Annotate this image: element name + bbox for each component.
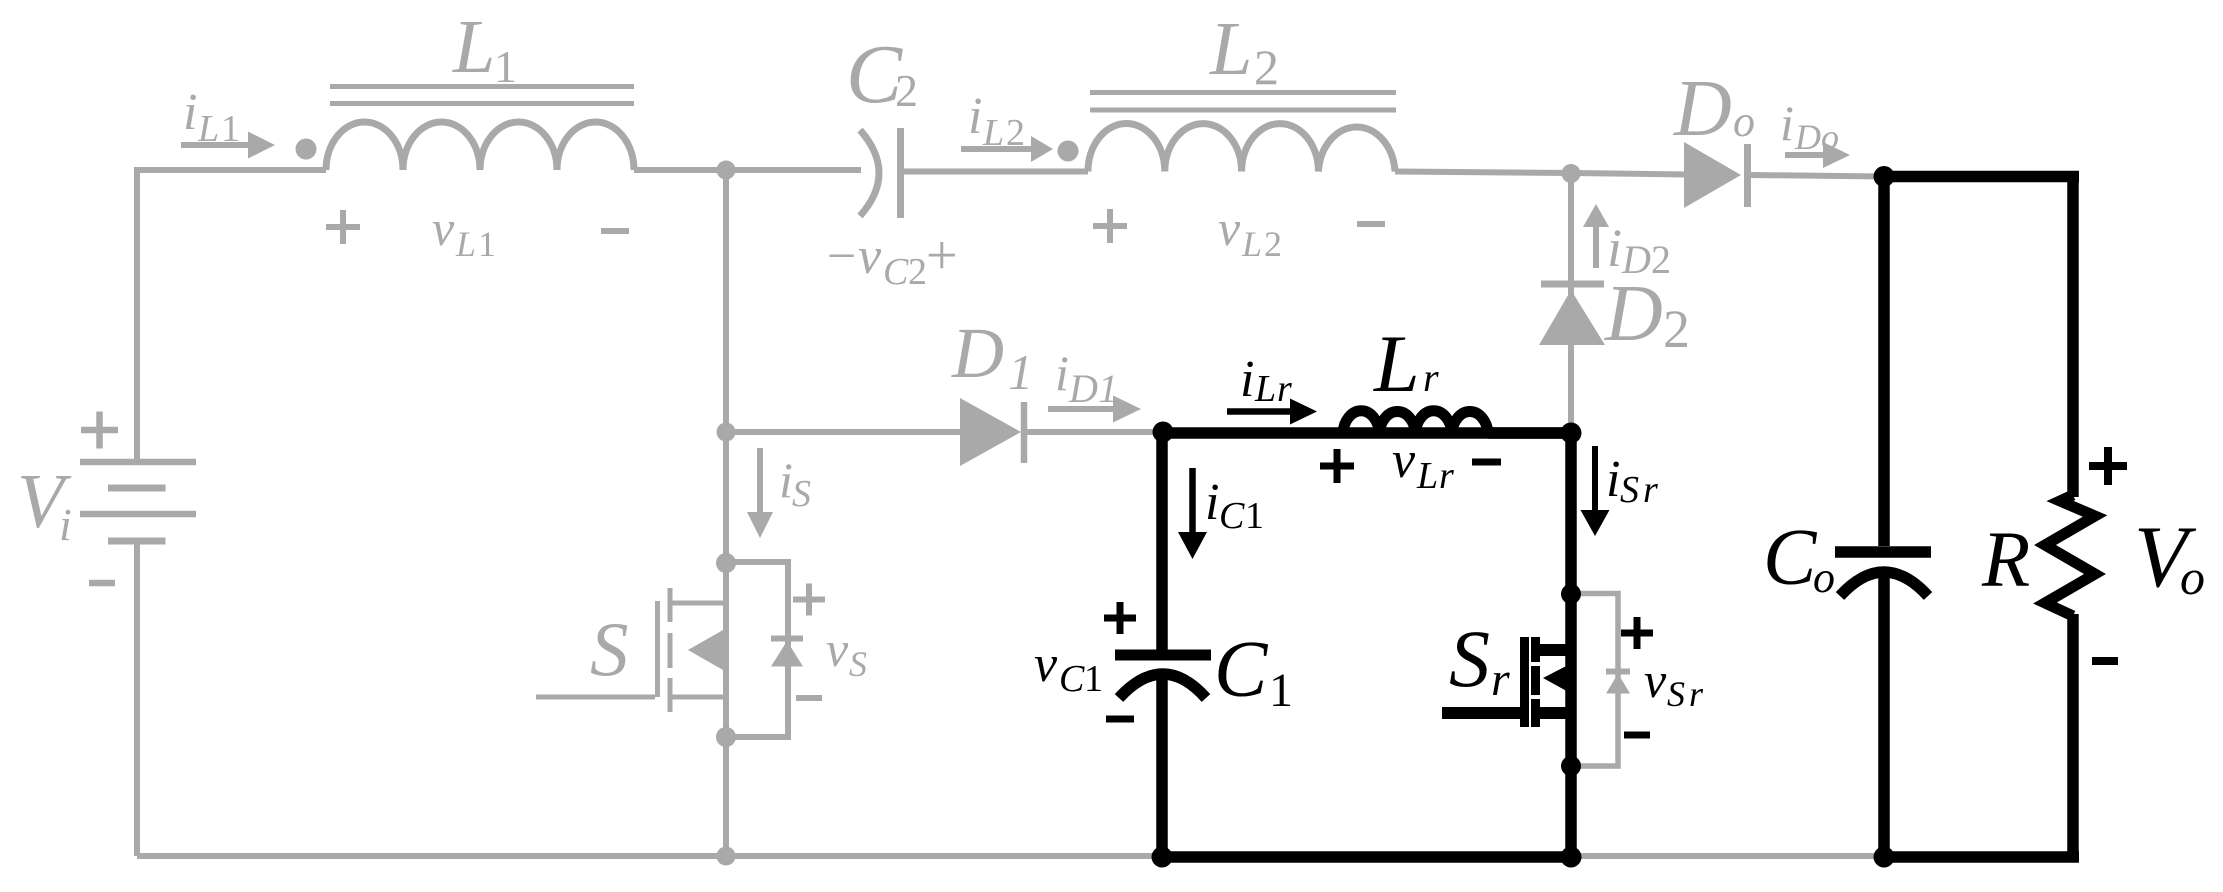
svg-text:2: 2 bbox=[1254, 39, 1279, 95]
svg-text:L: L bbox=[982, 112, 1004, 154]
output minus sign (Vo) bbox=[2092, 657, 2118, 665]
capacitor Co curved plate bbox=[1840, 572, 1928, 596]
wire Do to output node bbox=[1751, 175, 1884, 177]
node bottom left dot bbox=[1152, 847, 1173, 868]
output cell top wire bbox=[1884, 171, 2079, 183]
svg-text:D: D bbox=[1794, 117, 1821, 157]
svg-text:L: L bbox=[1373, 318, 1420, 409]
mosfet Sr gate lead bbox=[1442, 707, 1520, 719]
svg-text:v: v bbox=[1034, 636, 1058, 693]
wire resonant cell top left (node A to Lr) bbox=[1162, 427, 1571, 439]
i_Sr arrowhead bbox=[1581, 510, 1610, 536]
output cell Co vertical lower bbox=[1878, 575, 1890, 857]
svg-text:L: L bbox=[1416, 455, 1438, 497]
svg-text:S: S bbox=[590, 606, 629, 692]
capacitor C1 plus sign bbox=[1104, 602, 1136, 634]
battery Vi plates bbox=[80, 459, 196, 466]
svg-text:+: + bbox=[926, 225, 958, 287]
i_C1 arrowhead bbox=[1178, 532, 1207, 559]
svg-text:i: i bbox=[968, 88, 982, 145]
mosfet Sr body arrow bbox=[1543, 663, 1572, 694]
diode Do triangle bbox=[1684, 142, 1741, 208]
i_L2 arrowhead bbox=[1031, 136, 1053, 162]
svg-text:L: L bbox=[455, 224, 476, 264]
i_Sr arrow shaft bbox=[1592, 446, 1598, 510]
svg-text:L: L bbox=[452, 5, 495, 89]
svg-text:1: 1 bbox=[1084, 658, 1103, 700]
diode D1 triangle bbox=[960, 398, 1021, 466]
battery Vi minus sign bbox=[89, 580, 115, 587]
svg-text:v: v bbox=[432, 200, 455, 256]
i_C1 arrow shaft bbox=[1189, 468, 1196, 532]
wire vertical branch D2 bbox=[1568, 174, 1574, 430]
svg-text:S: S bbox=[792, 473, 811, 515]
wire Lr to node B bbox=[1488, 427, 1571, 439]
svg-text:1: 1 bbox=[1245, 495, 1264, 537]
mosfet S minus sign (v_S) bbox=[796, 695, 822, 701]
mosfet S drain lead bbox=[670, 601, 726, 606]
junction node L2/D2/Do bbox=[1562, 164, 1581, 183]
svg-text:D: D bbox=[1604, 270, 1663, 358]
wire vertical branch S (node top to bottom rail) bbox=[723, 170, 729, 856]
svg-text:1: 1 bbox=[1098, 366, 1118, 411]
battery Vi plus sign bbox=[81, 412, 118, 449]
output cell R vertical upper bbox=[2067, 176, 2079, 497]
node A dot bbox=[1153, 422, 1174, 443]
svg-text:L: L bbox=[197, 108, 219, 150]
v_L2 minus sign bbox=[1357, 221, 1385, 227]
svg-text:r: r bbox=[1423, 355, 1439, 400]
mosfet S body-diode triangle bbox=[771, 641, 803, 667]
svg-text:i: i bbox=[1240, 351, 1254, 408]
output cell bottom wire bbox=[1884, 851, 2079, 863]
svg-text:r: r bbox=[1491, 653, 1510, 706]
mosfet S body-diode branch wire bbox=[726, 562, 788, 737]
mosfet Sr drain lead bbox=[1537, 644, 1571, 656]
svg-text:D: D bbox=[1673, 65, 1732, 153]
svg-text:r: r bbox=[1439, 455, 1454, 497]
mosfet Sr body-diode cathode bar (gray) bbox=[1606, 669, 1630, 675]
svg-text:i: i bbox=[779, 452, 793, 508]
node output bottom dot bbox=[1874, 847, 1895, 868]
wire top rail from Vi to L1 bbox=[137, 170, 326, 459]
wire resonant cell right vertical bbox=[1565, 433, 1577, 857]
polarity dot L1 bbox=[296, 139, 317, 160]
wire top rail L2 to node D2 bbox=[1395, 172, 1571, 174]
svg-text:v: v bbox=[1644, 652, 1667, 708]
output cell Co vertical upper bbox=[1878, 171, 1890, 546]
mosfet S plus sign (v_S) bbox=[793, 584, 825, 616]
output plus sign (Vo) bbox=[2089, 447, 2127, 485]
svg-text:i: i bbox=[1205, 474, 1219, 531]
svg-text:1: 1 bbox=[221, 108, 240, 150]
capacitor C2 straight plate bbox=[897, 128, 904, 218]
node output top dot bbox=[1874, 166, 1895, 187]
inductor L1 core bars bbox=[330, 87, 634, 104]
v_Sr plus sign bbox=[1621, 617, 1653, 649]
i_D1 arrowhead bbox=[1113, 396, 1141, 423]
wire bottom rail bbox=[137, 853, 1884, 859]
capacitor C2 curved plate bbox=[860, 130, 879, 216]
svg-text:r: r bbox=[1689, 674, 1704, 714]
svg-text:L: L bbox=[1209, 7, 1252, 91]
i_S arrowhead bbox=[747, 512, 773, 538]
svg-text:o: o bbox=[1733, 97, 1755, 146]
v_L1 plus sign bbox=[326, 210, 360, 244]
wire middle rail node to D1 bbox=[726, 429, 961, 435]
diode D2 cathode bar bbox=[1541, 281, 1604, 288]
junction node bottom rail S bbox=[717, 847, 736, 866]
svg-text:D: D bbox=[951, 313, 1004, 393]
svg-text:i: i bbox=[59, 499, 72, 550]
svg-text:C: C bbox=[1059, 658, 1085, 700]
i_Do arrow shaft bbox=[1785, 152, 1823, 158]
svg-text:L: L bbox=[1254, 368, 1276, 410]
svg-text:1: 1 bbox=[1008, 344, 1033, 400]
svg-text:v: v bbox=[858, 228, 882, 285]
svg-text:1: 1 bbox=[478, 224, 496, 264]
mosfet S gate bar bbox=[655, 601, 660, 697]
i_Lr arrow shaft bbox=[1227, 408, 1290, 415]
svg-text:C: C bbox=[1214, 626, 1269, 714]
mosfet S channel segments bbox=[668, 588, 673, 712]
svg-text:R: R bbox=[1981, 517, 2030, 604]
svg-text:r: r bbox=[1277, 368, 1292, 410]
svg-text:S: S bbox=[1620, 469, 1639, 511]
svg-text:2: 2 bbox=[1264, 224, 1282, 264]
mosfet S body-diode cathode bar bbox=[771, 636, 803, 642]
svg-text:S: S bbox=[849, 644, 867, 684]
i_L2 arrow shaft bbox=[961, 146, 1031, 152]
mosfet Sr channel segments bbox=[1531, 637, 1540, 727]
diode Do cathode bar bbox=[1744, 144, 1751, 207]
svg-text:1: 1 bbox=[494, 41, 517, 92]
i_L1 arrowhead bbox=[248, 132, 275, 159]
output cell R vertical lower bbox=[2067, 614, 2079, 857]
diode D1 cathode bar bbox=[1021, 402, 1028, 463]
svg-text:o: o bbox=[1813, 553, 1835, 602]
node B dot bbox=[1561, 423, 1582, 444]
mosfet Sr body-diode triangle (gray) bbox=[1606, 674, 1630, 694]
polarity dot L2 bbox=[1058, 141, 1079, 162]
i_L1 arrow shaft bbox=[181, 142, 248, 148]
capacitor C1 minus sign bbox=[1106, 716, 1134, 723]
svg-text:L: L bbox=[1241, 224, 1262, 264]
v_Sr minus sign bbox=[1624, 732, 1650, 739]
inductor L1 winding bbox=[326, 122, 634, 170]
junction node S source bbox=[716, 727, 736, 747]
svg-text:o: o bbox=[1821, 117, 1839, 157]
svg-text:r: r bbox=[1643, 469, 1658, 511]
svg-text:2: 2 bbox=[908, 251, 927, 293]
i_Do arrowhead bbox=[1823, 142, 1850, 168]
svg-text:v: v bbox=[826, 621, 849, 677]
i_D2 arrowhead bbox=[1583, 204, 1609, 227]
wire top rail L1 to C2 bbox=[634, 167, 861, 173]
v_L1 minus sign bbox=[601, 228, 629, 234]
junction node middle rail bbox=[717, 423, 736, 442]
junction node S drain bbox=[716, 553, 736, 573]
inductor L2 core bars bbox=[1090, 93, 1396, 111]
wire top rail C2 to L2 bbox=[903, 169, 1088, 175]
i_D1 arrow shaft bbox=[1048, 406, 1113, 412]
svg-text:2: 2 bbox=[895, 65, 918, 116]
capacitor Co top plate bbox=[1835, 546, 1931, 558]
svg-text:i: i bbox=[1606, 451, 1620, 508]
svg-text:C: C bbox=[1763, 514, 1818, 602]
inductor Lr winding bbox=[1343, 411, 1488, 433]
svg-text:i: i bbox=[1055, 345, 1069, 401]
wire resonant cell left vertical lower bbox=[1156, 670, 1168, 857]
node Sr drain dot bbox=[1561, 584, 1581, 604]
svg-text:v: v bbox=[1392, 432, 1416, 489]
svg-text:S: S bbox=[1449, 613, 1490, 704]
mosfet S body arrow bbox=[688, 630, 723, 670]
svg-text:−: − bbox=[827, 228, 856, 285]
wire resonant cell bottom bbox=[1162, 851, 1571, 863]
mosfet Sr gate bar bbox=[1520, 637, 1529, 727]
i_D2 arrow shaft bbox=[1593, 226, 1599, 268]
svg-text:2: 2 bbox=[1663, 299, 1690, 359]
i_Lr arrowhead bbox=[1290, 399, 1317, 425]
svg-text:i: i bbox=[1780, 95, 1794, 151]
node Sr source dot bbox=[1561, 756, 1581, 776]
svg-text:2: 2 bbox=[1006, 112, 1025, 154]
svg-text:S: S bbox=[1667, 674, 1685, 714]
mosfet Sr source lead bbox=[1537, 707, 1571, 719]
svg-text:D: D bbox=[1068, 366, 1098, 411]
svg-text:o: o bbox=[2180, 549, 2205, 605]
v_L2 plus sign bbox=[1093, 209, 1127, 243]
mosfet Sr body-diode branch wire (gray) bbox=[1571, 594, 1618, 767]
wire left rail battery to bottom bbox=[134, 544, 140, 856]
capacitor C1 curved plate bbox=[1119, 674, 1206, 698]
i_S arrow shaft bbox=[757, 448, 763, 512]
inductor L2 winding bbox=[1088, 123, 1395, 171]
svg-text:i: i bbox=[183, 84, 197, 141]
mosfet S source lead bbox=[670, 695, 726, 700]
resistor R zigzag bbox=[2045, 495, 2095, 616]
svg-text:v: v bbox=[1218, 200, 1241, 256]
svg-text:i: i bbox=[1607, 218, 1622, 278]
junction node L1/C2/S bbox=[717, 161, 736, 180]
diode D2 triangle bbox=[1539, 290, 1605, 345]
node bottom right dot bbox=[1561, 847, 1582, 868]
v_Lr plus sign bbox=[1320, 449, 1354, 483]
wire node D2 to Do bbox=[1571, 173, 1686, 175]
wire middle rail D1 to node A bbox=[1027, 429, 1160, 435]
svg-text:1: 1 bbox=[1269, 664, 1293, 717]
svg-text:C: C bbox=[883, 251, 909, 293]
v_Lr minus sign bbox=[1472, 459, 1501, 466]
mosfet S gate lead bbox=[536, 695, 655, 700]
wire resonant cell left vertical upper bbox=[1156, 427, 1168, 650]
capacitor C1 top plate bbox=[1115, 650, 1211, 661]
svg-text:C: C bbox=[1219, 495, 1245, 537]
